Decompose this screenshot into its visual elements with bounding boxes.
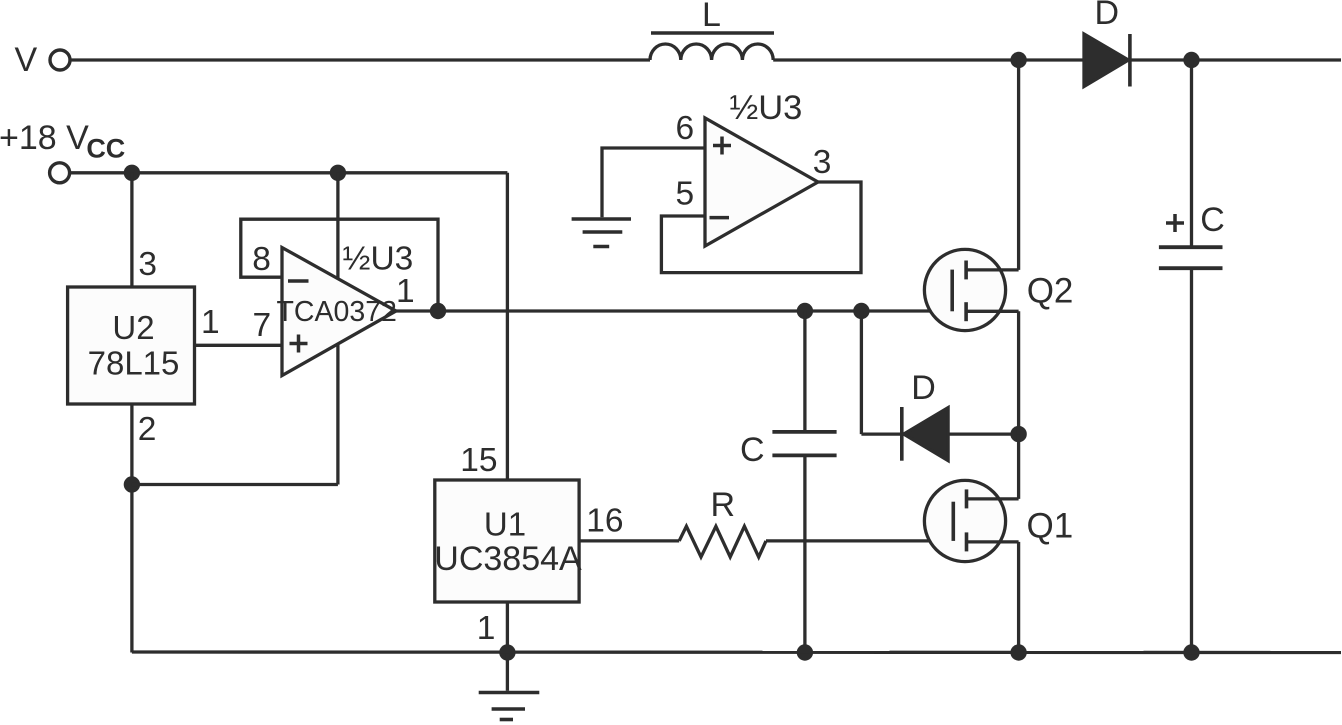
ground op-amp U3b bar1 — [572, 217, 631, 221]
svg-text:UC3854A: UC3854A — [434, 540, 582, 578]
svg-text:1: 1 — [477, 610, 496, 647]
svg-text:U1: U1 — [484, 506, 526, 543]
wire Q2 drain to top rail — [1017, 60, 1020, 270]
svg-text:U2: U2 — [112, 309, 154, 346]
junction output wire / cap C branch — [797, 303, 813, 319]
op-amp U3a plus sign — [290, 335, 308, 353]
svg-text:R: R — [711, 486, 736, 524]
wire op-amp U3b pin6 input — [602, 148, 705, 217]
ground main bar3 — [500, 718, 513, 722]
capacitor C output bottom plate — [1159, 266, 1223, 270]
diode D top (anode triangle) — [1084, 34, 1128, 87]
svg-text:78L15: 78L15 — [88, 345, 180, 382]
wire ground rail — [132, 650, 1341, 654]
inductor L — [650, 44, 773, 60]
capacitor C output plus sign — [1166, 214, 1184, 232]
wire resistor R to Q1 gate — [766, 539, 953, 542]
wire op-amp supply drop — [336, 173, 339, 485]
wire U2 pin2 down to ground rail — [130, 404, 133, 653]
junction diode D / Q2 source / Q1 drain — [1010, 426, 1026, 442]
diode D top cathode bar — [1128, 34, 1132, 87]
wire U1 pin1 to ground rail — [506, 602, 509, 653]
transistor Q1 source lead — [967, 540, 1019, 543]
junction node top rail / output cap C — [1183, 52, 1199, 68]
ground op-amp U3b bar3 — [593, 245, 609, 249]
transistor Q2 circle — [924, 249, 1005, 330]
transistor Q2 source bar — [964, 302, 968, 321]
svg-text:1: 1 — [201, 304, 220, 341]
svg-text:16: 16 — [586, 503, 623, 540]
wire output cap C to ground rail — [1190, 270, 1193, 653]
wire output cap C from top rail — [1190, 60, 1193, 246]
junction node top rail / Q2 drain — [1010, 52, 1026, 68]
wire U2 pin3 drop — [130, 173, 133, 287]
transistor Q2 drain bar — [964, 261, 968, 280]
op-amp U3a TCA0372 triangle — [282, 248, 396, 376]
resistor R — [679, 526, 766, 557]
junction output wire / diode D branch — [853, 303, 869, 319]
svg-text:V: V — [15, 41, 38, 79]
wire Q1 drain up to diode node — [1017, 434, 1020, 499]
junction ground rail / Q1 source — [1010, 644, 1026, 660]
transistor Q1 gate bar — [951, 502, 955, 541]
wire cap C branch down — [803, 311, 806, 430]
svg-text:3: 3 — [138, 246, 157, 283]
wire Vcc to U1 pin15 drop — [506, 173, 509, 480]
wire op-amp U3b feedback pin5 — [661, 182, 861, 273]
op-amp U3b triangle — [705, 118, 818, 246]
junction Vcc / op-amp supply drop — [330, 165, 346, 181]
diode D middle (triangle pointing left) — [904, 408, 948, 461]
svg-text:3: 3 — [813, 144, 832, 181]
transistor Q1 drain lead — [967, 497, 1019, 500]
wire Q1 source down to ground rail — [1017, 542, 1020, 653]
wire Q2 source down to diode node — [1017, 311, 1020, 434]
wire op-amp ground link horizontal — [132, 483, 338, 486]
capacitor C output top plate — [1159, 245, 1223, 249]
svg-text:½U3: ½U3 — [343, 241, 414, 278]
svg-text:+18 VCC: +18 VCC — [0, 119, 125, 164]
transistor Q2 source lead — [966, 310, 1019, 313]
svg-text:TCA0372: TCA0372 — [277, 296, 397, 328]
svg-text:1: 1 — [396, 273, 415, 310]
svg-text:D: D — [911, 369, 936, 407]
svg-text:2: 2 — [138, 411, 157, 448]
svg-text:7: 7 — [253, 307, 272, 344]
svg-text:5: 5 — [676, 176, 695, 213]
wire Vcc rail — [70, 171, 507, 174]
svg-text:C: C — [740, 431, 765, 469]
junction Vcc / U2 pin3 — [124, 165, 140, 181]
transistor Q2 drain lead — [966, 268, 1019, 271]
junction ground rail / U1 pin1 — [499, 644, 515, 660]
node +18 Vcc terminal — [50, 163, 70, 183]
transistor Q1 circle — [924, 480, 1005, 561]
junction U2 pin2 / op-amp ground link — [124, 476, 140, 492]
svg-text:Q1: Q1 — [1027, 507, 1074, 546]
svg-text:15: 15 — [460, 442, 497, 479]
wire top rail middle (inductor to diode D) — [773, 58, 1084, 61]
node V input terminal — [50, 50, 70, 70]
wire diode D to Q1/Q2 node — [948, 432, 1019, 435]
capacitor C top plate — [772, 430, 836, 434]
wire cap C to ground rail — [803, 457, 806, 653]
op-amp U3b minus sign — [710, 216, 730, 220]
junction ground rail / cap C — [797, 644, 813, 660]
transistor Q2 gate bar — [950, 270, 954, 312]
capacitor C bottom plate — [772, 453, 836, 457]
diode D middle cathode bar — [900, 407, 904, 461]
wire op-amp U3a feedback loop — [241, 219, 438, 311]
op-amp U3b plus sign — [713, 137, 731, 155]
controller U1 UC3854A box — [435, 480, 579, 602]
svg-text:6: 6 — [676, 110, 695, 147]
inductor L core bar — [651, 31, 774, 35]
svg-text:C: C — [1200, 201, 1225, 239]
svg-text:8: 8 — [252, 241, 271, 278]
ground main bar2 — [492, 707, 525, 711]
transistor Q1 drain bar — [965, 489, 969, 508]
wire op-amp U3a output — [396, 309, 952, 312]
wire diode D anode left — [861, 432, 901, 435]
ground op-amp U3b bar2 — [583, 230, 623, 234]
svg-text:Q2: Q2 — [1027, 272, 1074, 311]
svg-text:D: D — [1095, 0, 1120, 32]
wire diode D branch down — [860, 311, 863, 434]
op-amp U3a minus sign — [288, 279, 309, 283]
regulator U2 78L15 box — [68, 287, 195, 404]
wire U1 pin16 to resistor R — [579, 539, 679, 542]
wire U2 pin1 to op-amp plus input — [195, 344, 283, 347]
junction op-amp output / feedback — [430, 303, 446, 319]
transistor Q1 source bar — [965, 532, 969, 551]
svg-text:L: L — [702, 0, 721, 34]
ground main stem — [506, 653, 509, 691]
wire top rail right (diode to right edge) — [1130, 58, 1341, 61]
wire top rail left (V to inductor) — [71, 58, 651, 61]
svg-text:½U3: ½U3 — [730, 89, 803, 127]
ground main bar1 — [479, 691, 540, 695]
junction ground rail / output cap — [1183, 644, 1199, 660]
